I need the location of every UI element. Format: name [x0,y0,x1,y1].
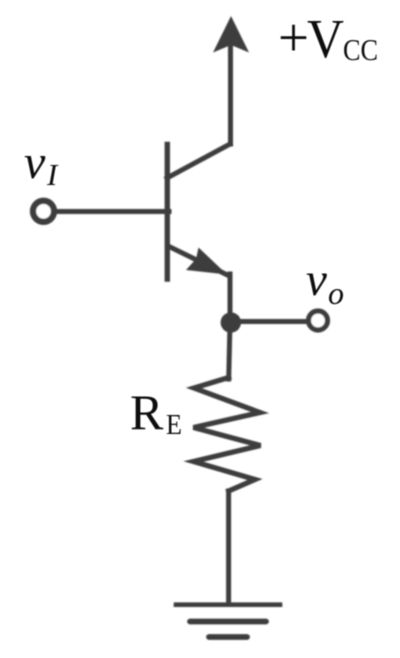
svg-text:+: + [278,7,309,68]
svg-text:I: I [46,157,59,192]
wire: emitter to node [228,274,233,324]
wire: input to base [55,209,169,214]
svg-text:v: v [306,254,327,306]
ground bar 1 [176,602,280,607]
wire: node to output [230,319,306,324]
transistor Q1 emitter lead [168,246,229,276]
output terminal vo [309,311,328,330]
transistor Q1 collector lead [167,144,230,178]
wire: node to resistor [229,322,230,379]
wire: resistor to ground [226,491,231,604]
svg-text:v: v [24,136,46,189]
input terminal vI [33,201,54,222]
node: emitter output junction [221,312,241,332]
svg-text:o: o [328,275,344,311]
ground bar 2 [190,619,266,625]
svg-text:E: E [166,410,182,441]
svg-text:CC: CC [343,32,378,67]
resistor RE zigzag [194,378,261,492]
svg-text:V: V [307,8,344,69]
svg-text:R: R [130,384,164,440]
transistor Q1 base bar [165,145,170,280]
transistor Q1 emitter arrowhead [186,248,227,275]
wire: VCC supply lead [228,47,233,144]
power arrow to +VCC [213,16,249,53]
ground bar 3 [209,634,247,640]
